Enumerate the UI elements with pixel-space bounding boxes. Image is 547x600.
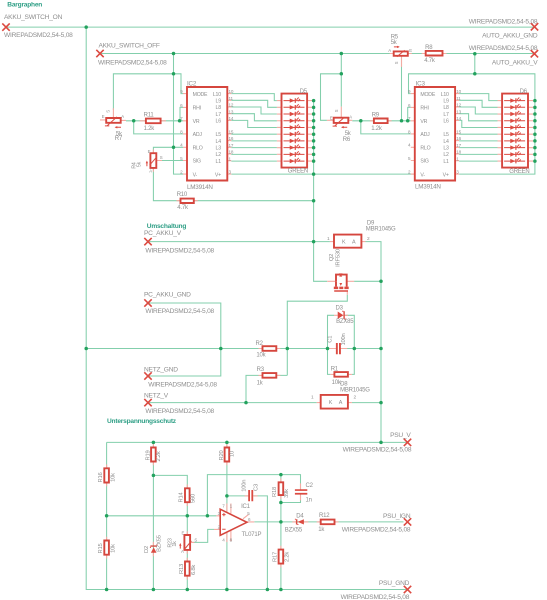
svg-text:IC3: IC3: [416, 81, 426, 88]
svg-text:R12: R12: [319, 513, 330, 519]
svg-text:R6: R6: [343, 137, 351, 143]
svg-text:C1: C1: [328, 336, 334, 343]
svg-text:Q2: Q2: [329, 254, 335, 261]
svg-text:10k: 10k: [111, 473, 117, 482]
svg-text:D2: D2: [144, 546, 150, 553]
svg-text:18: 18: [229, 150, 234, 155]
svg-text:R10: R10: [177, 192, 188, 198]
svg-text:14: 14: [456, 116, 461, 121]
svg-text:L6: L6: [216, 119, 222, 125]
svg-text:10k: 10k: [111, 544, 117, 553]
svg-text:10k: 10k: [332, 380, 342, 386]
svg-text:S: S: [334, 109, 339, 112]
svg-text:SIG: SIG: [420, 159, 428, 165]
svg-text:A: A: [349, 115, 352, 120]
svg-text:L6: L6: [443, 119, 449, 125]
svg-text:E: E: [409, 48, 412, 53]
svg-text:10k: 10k: [256, 352, 266, 358]
svg-text:R16: R16: [98, 473, 104, 483]
svg-text:PSU_GND: PSU_GND: [379, 580, 410, 587]
svg-text:39k: 39k: [284, 489, 290, 498]
svg-text:WIREPADSMD2,54-5,08: WIREPADSMD2,54-5,08: [148, 382, 217, 389]
svg-text:15: 15: [229, 130, 234, 135]
svg-text:RLO: RLO: [420, 146, 430, 152]
svg-text:RLO: RLO: [193, 146, 203, 152]
svg-text:NETZ_V: NETZ_V: [144, 392, 169, 399]
svg-text:13: 13: [456, 109, 461, 114]
svg-text:E: E: [102, 114, 105, 119]
svg-text:L3: L3: [443, 146, 449, 152]
svg-text:L4: L4: [216, 139, 222, 145]
svg-text:LM3914N: LM3914N: [415, 184, 441, 191]
svg-text:BZX55: BZX55: [285, 528, 303, 534]
svg-text:C3: C3: [253, 484, 259, 491]
svg-text:BZX85: BZX85: [336, 319, 354, 325]
svg-text:Bargraphen: Bargraphen: [7, 2, 42, 9]
svg-text:RHI: RHI: [420, 106, 428, 112]
svg-text:L10: L10: [213, 92, 221, 98]
svg-text:R1: R1: [331, 366, 339, 372]
svg-text:PSU_V: PSU_V: [390, 432, 411, 439]
svg-text:L9: L9: [443, 99, 449, 105]
svg-text:15: 15: [456, 130, 461, 135]
svg-text:L5: L5: [443, 132, 449, 138]
svg-text:WIREPADSMD2,54-5,08: WIREPADSMD2,54-5,08: [469, 18, 538, 25]
svg-text:AKKU_SWITCH_ON: AKKU_SWITCH_ON: [4, 14, 63, 21]
svg-text:WIREPADSMD2,54-5,08: WIREPADSMD2,54-5,08: [469, 45, 538, 52]
svg-text:16: 16: [229, 136, 234, 141]
svg-text:MBR1045G: MBR1045G: [340, 387, 370, 393]
svg-text:L1: L1: [443, 159, 449, 165]
svg-text:L8: L8: [216, 105, 222, 111]
svg-text:L3: L3: [216, 146, 222, 152]
svg-text:A: A: [388, 48, 391, 53]
svg-text:L5: L5: [216, 132, 222, 138]
svg-text:100n: 100n: [241, 480, 247, 492]
svg-text:A: A: [181, 549, 184, 554]
svg-text:ADJ: ADJ: [420, 132, 430, 138]
svg-text:R11: R11: [144, 112, 155, 118]
svg-text:IC2: IC2: [187, 81, 197, 88]
svg-text:V+: V+: [443, 172, 449, 178]
svg-text:C2: C2: [306, 483, 314, 489]
svg-text:D5: D5: [300, 89, 308, 95]
svg-text:AUTO_AKKU_V: AUTO_AKKU_V: [492, 59, 538, 66]
svg-text:MODE: MODE: [193, 92, 208, 98]
svg-text:WIREPADSMD2,54-5,08: WIREPADSMD2,54-5,08: [342, 527, 411, 534]
svg-text:NETZ_GND: NETZ_GND: [144, 366, 178, 373]
svg-text:17: 17: [456, 143, 461, 148]
svg-text:PSU_IGN: PSU_IGN: [383, 513, 411, 520]
svg-text:VR: VR: [420, 119, 427, 125]
svg-text:R13: R13: [179, 564, 185, 574]
svg-text:4.7k: 4.7k: [424, 58, 436, 64]
svg-text:V-: V-: [420, 172, 425, 178]
svg-text:R20: R20: [219, 451, 225, 461]
svg-text:1.2k: 1.2k: [144, 126, 156, 132]
svg-text:E: E: [148, 149, 151, 154]
svg-text:RHI: RHI: [193, 106, 201, 112]
svg-text:IRF530: IRF530: [336, 249, 342, 267]
svg-text:V-: V-: [193, 172, 198, 178]
svg-text:GREEN: GREEN: [288, 169, 308, 175]
svg-text:A: A: [121, 114, 124, 119]
svg-text:17: 17: [229, 143, 234, 148]
svg-text:PC_AKKU_V: PC_AKKU_V: [144, 230, 182, 237]
svg-text:WIREPADSMD2,54-5,08: WIREPADSMD2,54-5,08: [341, 594, 410, 600]
svg-text:IC1: IC1: [241, 504, 251, 510]
svg-text:L10: L10: [441, 92, 449, 98]
svg-text:L4: L4: [443, 139, 449, 145]
svg-text:WIREPADSMD2,54-5,08: WIREPADSMD2,54-5,08: [98, 60, 167, 67]
svg-text:10: 10: [230, 451, 236, 457]
svg-text:1n: 1n: [306, 498, 312, 504]
svg-text:L2: L2: [216, 152, 222, 158]
svg-text:L7: L7: [216, 112, 222, 118]
svg-text:MBR1045G: MBR1045G: [366, 226, 396, 232]
svg-text:R15: R15: [98, 544, 104, 554]
svg-text:L2: L2: [443, 152, 449, 158]
svg-text:2.2k: 2.2k: [285, 552, 291, 562]
svg-text:4.7k: 4.7k: [177, 205, 189, 211]
svg-text:R8: R8: [425, 45, 433, 51]
svg-text:VR: VR: [193, 119, 200, 125]
svg-text:D4: D4: [296, 513, 304, 519]
svg-text:E: E: [182, 531, 185, 536]
svg-text:11: 11: [456, 96, 461, 101]
svg-text:R2: R2: [256, 341, 264, 347]
svg-text:PC_AKKU_GND: PC_AKKU_GND: [144, 292, 191, 299]
svg-text:5k: 5k: [136, 161, 142, 167]
svg-text:1.2k: 1.2k: [371, 126, 383, 132]
svg-text:S: S: [194, 537, 197, 542]
svg-text:R18: R18: [272, 487, 278, 497]
svg-text:560: 560: [191, 494, 197, 503]
svg-text:SIG: SIG: [193, 159, 201, 165]
svg-text:WIREPADSMD2,54-5,08: WIREPADSMD2,54-5,08: [343, 446, 412, 453]
svg-text:ADJ: ADJ: [193, 132, 203, 138]
svg-text:L1: L1: [216, 159, 222, 165]
svg-text:TL071P: TL071P: [242, 532, 262, 538]
svg-text:D6: D6: [520, 89, 528, 95]
svg-text:Unterspannungsschutz: Unterspannungsschutz: [107, 418, 177, 425]
svg-text:2.2k: 2.2k: [156, 451, 162, 461]
svg-text:L9: L9: [216, 99, 222, 105]
svg-text:18: 18: [456, 150, 461, 155]
svg-text:L8: L8: [443, 105, 449, 111]
svg-text:6.8k: 6.8k: [191, 565, 197, 575]
svg-text:GREEN: GREEN: [509, 169, 529, 175]
svg-text:WIREPADSMD2,54-5,08: WIREPADSMD2,54-5,08: [4, 32, 73, 39]
svg-text:AUTO_AKKU_GND: AUTO_AKKU_GND: [482, 33, 538, 40]
svg-text:L7: L7: [443, 112, 449, 118]
svg-text:13: 13: [229, 109, 234, 114]
svg-text:10: 10: [229, 89, 234, 94]
svg-text:1k: 1k: [172, 541, 178, 547]
svg-text:12: 12: [456, 103, 461, 108]
svg-text:A: A: [149, 168, 152, 173]
svg-text:16: 16: [456, 136, 461, 141]
svg-text:Umschaltung: Umschaltung: [147, 223, 187, 230]
svg-text:AKKU_SWITCH_OFF: AKKU_SWITCH_OFF: [99, 43, 160, 50]
svg-text:R19: R19: [146, 451, 152, 461]
svg-text:R17: R17: [273, 552, 279, 562]
svg-text:R14: R14: [179, 492, 185, 503]
svg-text:S: S: [394, 61, 399, 64]
svg-text:11: 11: [229, 96, 234, 101]
svg-text:R7: R7: [115, 136, 123, 142]
svg-text:V+: V+: [215, 172, 221, 178]
svg-text:10: 10: [456, 89, 461, 94]
svg-text:WIREPADSMD2,54-5,08: WIREPADSMD2,54-5,08: [145, 247, 214, 254]
svg-text:R9: R9: [372, 112, 380, 118]
svg-text:MODE: MODE: [420, 92, 435, 98]
svg-text:S: S: [106, 110, 111, 113]
svg-text:14: 14: [229, 116, 234, 121]
svg-text:100n: 100n: [341, 333, 347, 345]
svg-text:12: 12: [229, 103, 234, 108]
svg-text:BZX55: BZX55: [157, 535, 163, 552]
svg-text:D3: D3: [336, 306, 344, 312]
svg-text:R3: R3: [257, 367, 265, 373]
svg-text:WIREPADSMD2,54-5,08: WIREPADSMD2,54-5,08: [145, 308, 214, 315]
svg-text:LM3914N: LM3914N: [187, 184, 213, 191]
svg-text:E: E: [330, 115, 333, 120]
svg-text:S: S: [160, 155, 163, 160]
svg-text:WIREPADSMD2,54-5,08: WIREPADSMD2,54-5,08: [145, 408, 214, 415]
